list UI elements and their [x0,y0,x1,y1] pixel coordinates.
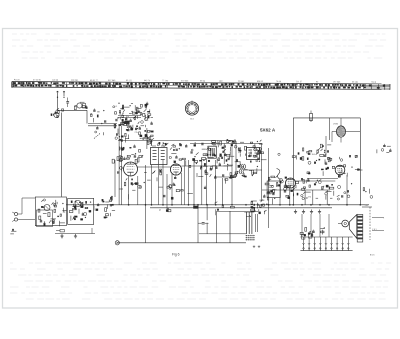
loop wiring cluster [215,202,235,215]
HT resistor row [278,148,330,162]
driver output parts [94,196,115,218]
trimmer capacitor row [115,126,153,142]
bus component [194,206,199,208]
coupling capacitor C4 [66,98,69,108]
wire oscillator horizontal [58,110,88,123]
speaker impedance label [365,205,386,231]
AF ground rail [55,233,95,235]
svg-text:310 355: 310 355 [181,80,189,82]
driver transistor TS3 [75,201,81,207]
figure caption Fig 6 [172,253,180,257]
svg-text:37 62 95: 37 62 95 [33,79,42,81]
grid wire V2-IF2 [182,165,233,167]
preamp inner shield box [37,210,53,227]
IF tube V2 [170,164,181,175]
decoupling parts above IF1 [147,138,168,146]
ground G1 [60,234,63,238]
resistor R30 on rail [56,230,64,232]
volume control cluster [251,200,268,215]
mains dropper parts [377,144,392,153]
type number bottom [370,254,374,256]
svg-text:231 57: 231 57 [296,81,303,83]
grid wire V1-V2 [138,166,171,168]
wire V2 anode drop [184,160,186,205]
output transformer S14 [244,212,257,240]
ferrite rod antenna with winding taps [12,79,390,90]
AF tube V4 [286,178,296,188]
driver module box [68,198,94,224]
loudspeaker terminal strip [357,215,363,243]
AGC rail [214,176,236,178]
arrow marks right [372,218,384,231]
V5 grid parts [332,155,362,178]
V2 grid components [169,143,187,166]
scale lamp parts [302,234,312,240]
svg-text:187 346: 187 346 [333,81,341,83]
preamp transistor TS2 [44,205,50,211]
detector input wire [244,169,262,171]
loop rail mid [199,233,246,235]
transformer ground tags [253,246,260,249]
sparse wiring left mid [119,182,145,189]
mixer tube V1 [124,162,138,176]
chassis type label 5X62A [260,127,276,132]
mixer anode cluster [191,139,234,163]
AVC network [301,178,334,200]
V5 cathode parts [332,183,353,200]
right edge parts [363,188,373,199]
capacitor C52 on loop [198,223,209,225]
ground G2 [74,234,77,238]
resistor R40 on box top [310,111,313,121]
band switch contacts SK1 [90,109,105,139]
main HT bus [66,204,369,205]
detector coupling curve [277,169,281,180]
detector diode cluster [263,175,299,204]
measurement dashed line [350,207,372,240]
rectifier tube U1 UY85 [332,118,360,143]
svg-text:93 121: 93 121 [126,80,133,82]
svg-text:68k: 68k [51,220,54,222]
secondary bus [150,207,332,209]
antenna coupling arrows [57,91,65,98]
wire IF1 return [158,165,160,205]
oscillator transistor TS1 [51,108,64,117]
osc coil parts [227,164,252,178]
IF band top rail [118,140,232,142]
svg-text:UY85: UY85 [333,123,339,125]
IF anode parts [189,163,216,177]
wire loop left drop [198,205,216,243]
wire drops to HT bus [115,118,347,243]
coupling coil can S8 [208,144,216,159]
svg-text:208 241: 208 241 [71,80,79,82]
detector box [267,181,280,198]
svg-text:517 540: 517 540 [108,80,116,82]
wire cathode line V1 left [121,126,123,205]
oscillator coil S7 [239,164,245,174]
driver parts [69,200,91,221]
svg-text:1n: 1n [227,159,229,161]
heater feed wires [302,214,329,237]
loudspeaker [338,215,357,239]
transformer tap arrow [246,215,251,218]
ground row under AF tube [294,210,321,214]
band switch assembly SK2 [113,102,153,130]
loop rail upper [216,211,258,213]
V-label under bus [159,208,171,212]
svg-text:B 0 6: B 0 6 [370,254,374,256]
wire V2 screen drop [181,173,183,205]
PSU mid parts [307,160,329,176]
svg-text:5X62 A: 5X62 A [260,127,276,132]
svg-text:23 561: 23 561 [238,81,245,83]
preamp module box [35,197,66,226]
svg-text:55 161: 55 161 [352,82,359,84]
V1 cathode parts [124,178,138,199]
heater series parts [300,228,325,237]
IF1 secondary parts [144,169,162,181]
IF transformer S11/S12 [247,148,260,160]
feedback bus [117,211,246,243]
wire antenna to oscillator node [57,96,59,110]
svg-text:115 96: 115 96 [52,80,59,82]
wire osc grid drop [223,144,225,165]
heater chain sockets [300,237,352,251]
aerial transformer S1 [74,102,87,110]
svg-text:Fig 6: Fig 6 [172,253,180,257]
wire AM line down to AF section [61,113,63,197]
detector rail [262,189,330,191]
svg-text:77 195: 77 195 [162,80,169,82]
svg-text:68 41 77: 68 41 77 [90,80,99,82]
mixer-osc rail [190,143,262,145]
output stage boundary box [293,118,360,205]
svg-text:V: V [159,208,161,212]
PSU rail [308,178,338,180]
PSU lower parts [300,144,332,164]
wire screen drop V1 [137,176,139,205]
svg-text:27k: 27k [135,132,138,134]
V1 left wiring [112,155,123,173]
screen resistors R5 R6 [120,145,144,164]
preamp parts [38,199,67,226]
S11 base parts [252,161,260,176]
sparse wiring mid [158,183,206,200]
wire osc coil drop [146,128,148,149]
output pentode V5 [335,165,345,175]
feedback node junction [115,241,119,245]
AF coupling wire [296,180,336,182]
svg-text:4x120: 4x120 [14,79,20,81]
svg-text:27k: 27k [308,197,311,199]
wire stub [91,228,93,234]
oscillator padder cluster [232,140,266,168]
svg-text:404 12: 404 12 [257,81,264,83]
tube socket pinout diagram B9A [185,101,198,121]
neutralizing parts [214,163,234,184]
svg-text:642 70: 642 70 [144,80,151,82]
V2 cathode parts [169,176,183,192]
pickup input terminals [12,198,35,222]
IF transformer S9/S10 [151,146,168,165]
left column pickup parts [10,229,16,234]
faint print bleed-through rows [10,34,391,299]
wire grid line V1 left [118,126,120,205]
wire band-switch pair [88,124,117,126]
